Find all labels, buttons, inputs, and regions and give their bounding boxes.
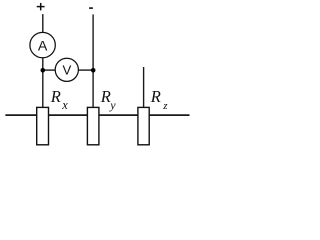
junction node on - branch (91, 68, 96, 73)
wire bus (common bottom rail) (5, 114, 189, 116)
node + terminal label (37, 3, 45, 10)
wire from - terminal down to resistor Ry (92, 14, 94, 108)
wire from + terminal to ammeter (42, 14, 44, 33)
svg-text:y: y (109, 98, 116, 112)
resistor Rz body (138, 107, 149, 144)
svg-text:A: A (38, 38, 48, 54)
svg-text:R: R (50, 87, 61, 106)
svg-text:x: x (61, 98, 68, 112)
svg-text:V: V (63, 62, 72, 77)
resistor Ry body (87, 107, 99, 144)
wire voltmeter left stub (43, 69, 56, 71)
wire from ammeter to resistor Rx (42, 58, 44, 108)
voltmeter U2 (V meter) (55, 58, 78, 81)
svg-text:z: z (162, 100, 168, 112)
ammeter U1 (A meter) (30, 32, 55, 57)
wire above resistor Rz (143, 67, 145, 108)
resistor Rx body (37, 107, 49, 144)
svg-text:R: R (150, 87, 161, 106)
junction node on + branch (41, 68, 46, 73)
node - terminal label (89, 7, 93, 9)
wire voltmeter right stub (78, 69, 93, 71)
